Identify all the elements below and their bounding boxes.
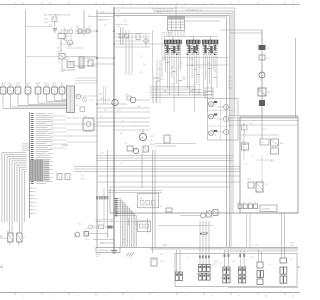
node label box bottom — [96, 248, 120, 259]
svg-text:R 0: R 0 — [64, 28, 66, 30]
switch S8 — [84, 232, 89, 237]
svg-text:B+ 2: B+ 2 — [219, 212, 222, 214]
svg-text:CN-3: CN-3 — [104, 25, 107, 27]
timer U3 — [138, 221, 151, 232]
wire vertical W8 — [120, 27, 122, 45]
wire bus H6 — [150, 92, 208, 94]
motor M1 condenser fan — [62, 39, 73, 46]
svg-text:OR 1: OR 1 — [104, 110, 107, 112]
svg-text:ECM: ECM — [62, 143, 68, 147]
wire ecm right stubs — [50, 116, 66, 148]
node X1 labels — [211, 261, 235, 267]
connector J6 header — [187, 40, 201, 44]
svg-text:BK 0.5: BK 0.5 — [85, 239, 90, 241]
svg-text:GN-W: GN-W — [26, 83, 31, 85]
switch S6 — [207, 211, 212, 217]
sender B10 — [127, 96, 150, 103]
resistor R2 ladder — [79, 57, 84, 68]
wire box bottom harness — [175, 254, 297, 287]
wire bus R4 — [229, 124, 299, 126]
wire cluster links y143 — [155, 144, 196, 147]
node title label top-left — [44, 14, 71, 17]
wire chain feeds — [220, 30, 262, 33]
svg-text:EC-0: EC-0 — [76, 105, 80, 107]
svg-text:OR 1.: OR 1. — [150, 140, 155, 142]
svg-text:BK: BK — [58, 62, 60, 64]
svg-text:SE25: SE25 — [137, 106, 141, 108]
node bus labels right — [163, 242, 294, 248]
wire vertical W4 — [83, 10, 85, 35]
connector J6 pin text — [187, 44, 200, 55]
node mid labels2 — [100, 98, 141, 123]
wire box mid bottom — [110, 212, 298, 214]
svg-text:R 0.85: R 0.85 — [228, 84, 233, 86]
connector J5 pin text — [165, 44, 181, 55]
connector block X1 — [199, 265, 211, 281]
svg-text:OR 1: OR 1 — [34, 209, 38, 211]
connector block X3 — [223, 267, 230, 283]
svg-text:GN-W: GN-W — [228, 88, 233, 90]
lamp E2 — [209, 114, 218, 121]
svg-text:OR 1.: OR 1. — [204, 79, 209, 81]
svg-text:EC-07: EC-07 — [163, 245, 167, 247]
svg-text:EC-07: EC-07 — [198, 67, 202, 69]
svg-text:RD 2.5: RD 2.5 — [81, 179, 86, 181]
svg-text:GN-W: GN-W — [34, 199, 39, 201]
switch S1 pressure — [57, 52, 65, 60]
svg-text:W-L: W-L — [61, 83, 64, 85]
wire lamp box inner — [208, 99, 234, 141]
svg-text:B+ 2: B+ 2 — [206, 73, 209, 75]
connector block X4 — [239, 267, 246, 283]
lamp LP2 — [217, 116, 229, 121]
wire bus M4 — [74, 166, 240, 168]
svg-text:SE25: SE25 — [160, 261, 164, 263]
wire vertical W9 — [122, 27, 124, 45]
svg-text:RD 2.: RD 2. — [122, 239, 126, 241]
relay K4 — [143, 146, 149, 152]
wire box cab harness — [240, 117, 298, 213]
wire box inner stubs — [244, 152, 275, 182]
wire vertical x146 — [145, 34, 147, 48]
wire bottom frame link — [228, 287, 298, 289]
node edge mark right — [297, 266, 300, 268]
wire vertical W12c — [232, 11, 234, 213]
wire main bus vertical W2 battery — [113, 7, 115, 251]
wire J5 feed — [172, 37, 174, 41]
wire vertical W12 — [228, 15, 230, 247]
wire vertical W9d — [131, 33, 133, 75]
wire cluster C drop — [62, 59, 75, 70]
node label under grid — [161, 33, 172, 37]
ammeter P1 — [259, 72, 265, 78]
wire link y57 — [162, 57, 229, 59]
motor M2 — [139, 129, 146, 141]
wire bus H3 — [168, 16, 227, 18]
node labels mid band — [81, 153, 123, 181]
svg-text:RES: RES — [66, 60, 69, 62]
svg-text:K6: K6 — [55, 172, 57, 174]
connector J7 pin text — [203, 44, 218, 55]
diode D3 — [69, 30, 73, 34]
wire bus H5 — [184, 20, 220, 22]
wire bus R2 — [229, 117, 299, 119]
wire bus M8 — [97, 181, 240, 183]
wire drops mid box — [247, 213, 251, 247]
wire ecmA right stubs — [75, 78, 97, 96]
svg-text:F1 F2 F3 F4 F5: F1 F2 F3 F4 F5 — [161, 33, 172, 35]
svg-text:BK 0.5: BK 0.5 — [228, 81, 233, 83]
sensor B3 — [15, 83, 21, 94]
wire bus H8 — [150, 97, 208, 99]
svg-text:X1:4: X1:4 — [68, 46, 71, 48]
wire bus H7 — [150, 94, 208, 96]
wire fuse row — [75, 31, 97, 34]
wire bus H4 — [153, 10, 233, 12]
wire vertical W10 — [261, 30, 263, 117]
fuse F1 — [76, 27, 82, 33]
connector CN-A — [58, 31, 65, 39]
wire harness left staircase — [2, 153, 27, 233]
svg-text:OR 1: OR 1 — [60, 30, 63, 32]
svg-text:CB: CB — [267, 58, 269, 60]
wire to center y66 — [74, 65, 97, 67]
node zone labels top — [15, 2, 294, 5]
connector block X2 — [175, 272, 182, 281]
node labels bc2 — [160, 245, 167, 263]
svg-text:X1:4: X1:4 — [66, 57, 69, 59]
wire vertical W3 — [107, 150, 109, 238]
sensor B7 — [52, 83, 58, 94]
svg-text:CN-3: CN-3 — [121, 227, 124, 229]
svg-text:W-L: W-L — [110, 221, 113, 223]
relay K1 — [49, 17, 57, 28]
flasher unit U2 — [138, 194, 159, 208]
wire drops X6 — [282, 213, 285, 258]
wire drops X4 — [239, 250, 245, 267]
sensor B4 — [25, 83, 31, 94]
wire lamp box — [208, 99, 239, 141]
wire link y86 — [150, 86, 196, 88]
svg-text:EC-0: EC-0 — [250, 257, 253, 259]
wire link y16 — [89, 15, 114, 18]
capacitor C1 — [136, 34, 140, 40]
fuse F6 — [151, 258, 157, 266]
wire chain inside box — [261, 117, 263, 139]
fuse F5 — [242, 141, 249, 150]
svg-text:W-L: W-L — [117, 10, 120, 12]
svg-text:R 0.8: R 0.8 — [160, 79, 164, 81]
node labels harness box — [186, 257, 293, 266]
wire harness sensor fan — [3, 94, 67, 108]
connector J2 ECM-A — [67, 86, 75, 113]
svg-text:EC-07: EC-07 — [99, 20, 103, 22]
horn H1 — [180, 213, 205, 218]
lamp E1 — [209, 101, 218, 107]
node lamp row labels — [192, 88, 213, 98]
node junction dots mid — [96, 30, 114, 190]
svg-text:BK: BK — [243, 202, 245, 204]
svg-text:BK 0: BK 0 — [250, 123, 253, 125]
svg-text:X1:4: X1:4 — [268, 264, 271, 266]
fuse F4 — [259, 100, 268, 106]
wire vertical W12d — [234, 8, 236, 117]
wire vertical x153 top — [152, 30, 154, 78]
lamp LP3 — [217, 129, 229, 134]
connector J3 ECM-B grid — [30, 160, 50, 181]
node labels top-left — [44, 18, 70, 73]
wire vertical W7 — [154, 150, 156, 248]
connector J5 header — [165, 40, 182, 44]
wire vertical W11 — [226, 17, 228, 247]
svg-text:R 0: R 0 — [248, 202, 250, 204]
wire bus N2 — [108, 191, 162, 193]
wire vertical x160 top — [159, 60, 161, 103]
svg-text:J: J — [266, 3, 267, 5]
wire bottom border bus — [0, 292, 300, 294]
svg-text:BK 0: BK 0 — [34, 191, 37, 193]
battery GB1 — [75, 232, 80, 237]
svg-text:GN-W: GN-W — [60, 71, 65, 73]
wire vertical W13 right — [295, 38, 297, 117]
svg-text:EC-0: EC-0 — [78, 224, 81, 226]
connector J11 — [108, 226, 115, 229]
node labels bl rows — [85, 229, 105, 245]
svg-text:SE25: SE25 — [66, 36, 70, 38]
switch S5 — [247, 179, 269, 192]
wire main bus vertical W1 — [96, 10, 98, 248]
solenoid Y1 — [83, 116, 94, 131]
svg-text:GN-W: GN-W — [100, 243, 105, 245]
svg-text:GN-W: GN-W — [182, 77, 187, 79]
wire vertical W12b — [230, 13, 232, 247]
switch S9 — [119, 34, 123, 38]
svg-text:BK 0: BK 0 — [158, 69, 161, 71]
wire bundle from J5 — [166, 56, 182, 113]
wire verticals bl — [129, 218, 148, 233]
svg-text:LG-B: LG-B — [100, 153, 104, 155]
svg-text:F5: F5 — [242, 141, 244, 143]
node labels fuse row — [76, 25, 91, 28]
svg-text:B+ 24: B+ 24 — [162, 59, 166, 61]
wire link y41 — [114, 40, 150, 42]
sensor B8 — [59, 83, 65, 94]
node edge mark left — [0, 265, 3, 268]
node label bus2 — [157, 11, 161, 13]
svg-text:F4: F4 — [266, 104, 268, 106]
svg-text:OR 1.: OR 1. — [171, 67, 176, 69]
connector J7 header — [203, 40, 219, 44]
svg-text:F3: F3 — [267, 48, 269, 50]
svg-text:B+ 2: B+ 2 — [34, 206, 37, 208]
node wire labels center — [158, 59, 211, 97]
svg-text:X1:4: X1:4 — [129, 258, 132, 260]
thermistor R4 — [143, 36, 148, 43]
sensor B1 — [0, 82, 6, 94]
sensor B2 — [8, 83, 14, 94]
connector J4 fuse block grid — [152, 5, 185, 37]
node label top center — [186, 9, 203, 12]
svg-text:LG-B: LG-B — [125, 94, 128, 96]
wire J6 feed — [192, 37, 194, 41]
node mark box — [242, 125, 248, 130]
connector block X5 — [257, 250, 264, 285]
relay K5 group — [271, 139, 285, 154]
wire bc links2 — [95, 220, 150, 222]
sender B11 — [89, 225, 114, 229]
node ECM label — [62, 143, 68, 147]
switch S3 cluster — [150, 135, 170, 146]
connector J9 column staircase — [115, 198, 137, 247]
wire midtop stubs — [97, 20, 128, 25]
svg-text:BK 0.5: BK 0.5 — [139, 198, 143, 200]
svg-text:R 0.8: R 0.8 — [16, 83, 20, 85]
svg-text:B+ 24: B+ 24 — [193, 84, 197, 86]
svg-text:GN-W: GN-W — [171, 84, 176, 86]
svg-text:K2: K2 — [7, 231, 9, 233]
wire bus bottom B1 — [120, 246, 298, 248]
ground G1 main — [111, 251, 117, 254]
wire tl links — [59, 34, 84, 49]
wire ecm to bus stubs — [66, 118, 97, 142]
wire bl links — [89, 234, 115, 244]
wire vertical x162 top — [161, 36, 163, 78]
wire vertical x164 top — [164, 36, 166, 60]
lamp E3 — [209, 130, 218, 137]
svg-text:M: M — [141, 136, 143, 140]
svg-text:B+ 2: B+ 2 — [118, 110, 121, 112]
ecm U1 lower pin stubs — [30, 187, 39, 215]
buzzer BZ1 — [125, 144, 139, 154]
wire bus R1 — [229, 115, 299, 117]
svg-text:BZ: BZ — [125, 144, 127, 146]
wire link y90 — [150, 89, 196, 91]
wire vertical x157 — [156, 60, 158, 103]
wire bus bottom B2 — [150, 248, 298, 250]
wire box inner h135 — [240, 134, 279, 136]
fuse bank FB1 — [199, 221, 210, 264]
svg-text:KCF: KCF — [200, 231, 209, 236]
node tl labels2 — [59, 28, 72, 53]
relay K3 — [17, 233, 25, 245]
switch S7 — [213, 210, 222, 216]
wire vertical x103 — [104, 86, 106, 104]
svg-text:B+ 24V: B+ 24V — [96, 221, 101, 223]
svg-text:MAIN HARNESS 24V: MAIN HARNESS 24V — [186, 9, 203, 12]
wire bus M1 — [96, 155, 233, 157]
node labels x145 — [140, 56, 146, 74]
splice SP1 — [126, 253, 134, 260]
svg-text:SOL: SOL — [84, 116, 87, 118]
connector J8 row — [238, 201, 277, 212]
svg-text:W-L: W-L — [220, 263, 223, 265]
wire long y225 — [158, 225, 213, 227]
svg-text:R5: R5 — [23, 237, 25, 239]
wire cluster B drop — [60, 39, 62, 53]
wire bus M3 — [96, 160, 233, 162]
svg-text:W-L: W-L — [177, 95, 180, 97]
relay K6 — [55, 172, 62, 180]
svg-text:SE2501: SE2501 — [96, 254, 102, 256]
wire box mid top — [110, 186, 230, 188]
wire bus M5 — [74, 168, 240, 170]
svg-text:BK 0.: BK 0. — [9, 83, 13, 85]
wire box mid left — [109, 187, 111, 213]
wire J7 feed — [209, 37, 211, 41]
wire drops left pair — [177, 250, 181, 272]
svg-text:A/C COMP MAGNETIC CLUTCH: A/C COMP MAGNETIC CLUTCH — [44, 14, 71, 17]
svg-text:10 15 10 20 15: 10 15 10 20 15 — [161, 35, 171, 37]
wire connector top link — [165, 36, 219, 38]
wire bus H1 — [97, 12, 231, 14]
wire link y37 — [114, 36, 150, 38]
node label bus1 — [100, 12, 105, 14]
switch S10 — [125, 34, 129, 38]
node label x118 — [117, 10, 120, 12]
wire link y44 — [114, 43, 168, 45]
svg-text:SE250: SE250 — [189, 59, 194, 61]
wire stub top-left — [26, 27, 60, 57]
ecm U1 pin rows — [30, 113, 54, 184]
node labels midtop — [99, 17, 127, 29]
svg-text:CLUSTER: CLUSTER — [262, 209, 271, 211]
node label KCF — [200, 231, 209, 236]
wire bus M6 — [74, 171, 240, 173]
connector J10 small — [96, 196, 108, 199]
svg-text:105: 105 — [124, 21, 127, 23]
sensor cluster left mid — [76, 94, 86, 111]
wire ECM stem — [29, 112, 31, 218]
relay K7 — [65, 174, 70, 180]
svg-text:GN-W: GN-W — [214, 261, 219, 263]
wire L-bracket — [153, 78, 160, 103]
lamp LP1 — [217, 104, 229, 109]
fuse F2 — [84, 27, 90, 33]
svg-text:CN-3: CN-3 — [232, 261, 235, 263]
wire top border bus — [0, 4, 300, 6]
wire bundle from J6 — [188, 56, 201, 113]
svg-text:RD 2: RD 2 — [120, 133, 123, 135]
wire bus H2 — [114, 14, 229, 16]
wire relay feed left — [0, 236, 8, 238]
diode D1 — [53, 29, 57, 34]
svg-text:B+ 24: B+ 24 — [213, 264, 217, 266]
wire bus H0 top — [114, 7, 235, 9]
sensor B5 — [35, 82, 41, 94]
svg-text:W-L: W-L — [34, 213, 37, 215]
svg-text:105: 105 — [120, 163, 123, 165]
resistor R1 — [66, 60, 74, 68]
svg-text:SE250: SE250 — [150, 144, 155, 146]
svg-text:W-L: W-L — [180, 63, 183, 65]
svg-text:W-L: W-L — [100, 116, 103, 118]
svg-text:OR: OR — [70, 28, 72, 30]
wire vertical x104 — [103, 188, 105, 225]
svg-text:GN-W: GN-W — [247, 179, 252, 181]
diode D2 — [64, 30, 68, 34]
wire link y47 — [114, 46, 150, 48]
wire vertical W6 — [152, 150, 154, 253]
svg-text:CN-3: CN-3 — [265, 184, 269, 186]
svg-text:GN-W: GN-W — [100, 98, 105, 100]
sender B9 temp — [112, 94, 118, 106]
svg-text:B+ 24: B+ 24 — [45, 83, 49, 85]
wire vertical W5 — [141, 152, 143, 188]
resistor R3 — [160, 206, 172, 212]
relay K2 — [7, 231, 13, 245]
node zone labels bottom — [15, 293, 295, 298]
svg-text:CN-3: CN-3 — [270, 161, 273, 163]
